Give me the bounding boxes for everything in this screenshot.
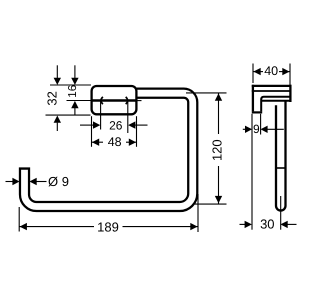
dimension diameter 9 (6, 174, 69, 189)
bar line through block (67, 99, 142, 102)
towel ring outline (front view) (25, 93, 193, 206)
right fillet mark (126, 97, 128, 104)
wall-mount block (front view) (92, 86, 137, 114)
dimension 189 (19, 194, 198, 234)
wall bracket (side view) (252, 85, 292, 113)
svg-text:30: 30 (260, 217, 274, 232)
svg-text:120: 120 (210, 139, 225, 161)
dimension 9 (side view) (243, 114, 284, 230)
svg-text:Ø 9: Ø 9 (48, 174, 69, 189)
svg-text:16: 16 (67, 85, 79, 98)
left fillet mark (101, 97, 103, 104)
svg-text:26: 26 (109, 118, 123, 132)
svg-text:32: 32 (45, 91, 60, 105)
svg-text:189: 189 (97, 219, 119, 234)
dimension 16 (67, 65, 79, 114)
svg-text:48: 48 (108, 135, 122, 149)
open-end mark on bar (277, 167, 285, 169)
hanging ring bar (side view) (276, 102, 286, 211)
dimension 30 (side view) (240, 217, 297, 232)
bar centerline (280, 196, 282, 230)
dimension 40 (side view) (253, 64, 290, 86)
dimension 120 (186, 93, 227, 204)
dimension 32 (45, 65, 91, 131)
svg-text:40: 40 (264, 64, 278, 78)
svg-text:9: 9 (253, 122, 260, 136)
dimension 48 (92, 116, 137, 149)
dimension 26 (80, 102, 148, 134)
